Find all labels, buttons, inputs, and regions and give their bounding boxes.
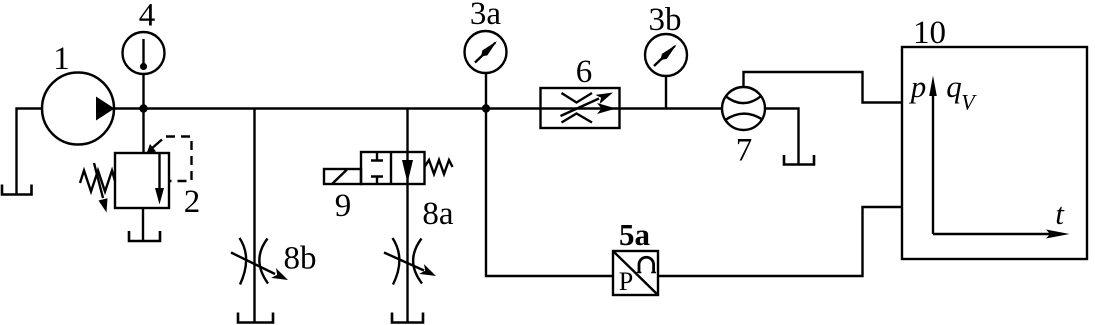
- svg-text:5a: 5a: [619, 217, 651, 252]
- wire: relief valve 2 outlet: [142, 208, 144, 241]
- wire: gauge 3a stem: [485, 73, 487, 109]
- pressure gauge 3a: [465, 31, 507, 73]
- recorder 10 box: [902, 47, 1087, 259]
- throttle 8a right arc: [413, 239, 422, 284]
- tank T4 (throttle 8a): [392, 313, 423, 323]
- valve 9 flow arrow: [402, 160, 413, 183]
- wire: flow meter branch to tank: [765, 109, 799, 165]
- valve 6 adjustment arrow: [561, 99, 600, 117]
- pump 1 output triangle: [96, 97, 115, 121]
- svg-text:V: V: [961, 90, 977, 115]
- relief valve 2 body: [115, 153, 169, 208]
- svg-text:1: 1: [53, 41, 70, 77]
- wire: relief valve 2 inlet: [142, 109, 144, 154]
- relief valve 2 spring adjustment arrow: [94, 163, 103, 198]
- svg-text:2: 2: [184, 184, 201, 220]
- valve 9 solenoid: [324, 169, 361, 184]
- tank T3 (throttle 8b): [238, 313, 273, 323]
- svg-text:8a: 8a: [422, 196, 454, 232]
- flow meter 7: [722, 87, 765, 130]
- tank T2 (relief valve): [129, 231, 160, 241]
- flow control valve 6 body: [541, 88, 620, 128]
- valve 9 body: [361, 152, 425, 184]
- wire: branch line through valve 9 to throttle 8a: [406, 109, 408, 323]
- recorder vertical axis: [932, 92, 934, 234]
- relief valve 2 internal flow arrow: [158, 153, 160, 190]
- wire: flow meter outlet to recorder: [744, 72, 903, 103]
- relief valve 2 pilot line (dashed): [151, 140, 163, 150]
- throttle 8b right arc: [259, 239, 268, 284]
- tank T1 (pump suction): [2, 185, 32, 195]
- throttle 8b adjustment arrow: [231, 253, 275, 275]
- wire: main pressure line: [114, 107, 723, 109]
- node: junction at gauge 3a: [482, 104, 490, 112]
- pump 1 circle: [42, 73, 114, 145]
- recorder horizontal axis: [933, 233, 1052, 235]
- svg-text:q: q: [946, 69, 962, 104]
- wire: pump suction line: [17, 109, 43, 195]
- throttle 8a left arc: [393, 238, 400, 285]
- svg-text:9: 9: [335, 188, 352, 224]
- throttle 8a adjustment arrow: [384, 253, 424, 271]
- wire: gauge 3b stem: [665, 76, 667, 109]
- wire: branch line to throttle 8b: [253, 109, 255, 323]
- wire: feedback line from junction to transducer 5a: [486, 109, 613, 277]
- throttle 8b left arc: [240, 238, 247, 285]
- valve 6 flow direction arrow: [597, 103, 616, 114]
- svg-text:4: 4: [139, 0, 156, 34]
- pressure transducer 5a: [613, 251, 658, 296]
- pressure gauge 4: [123, 32, 165, 74]
- svg-text:P: P: [619, 267, 633, 296]
- wire: transducer 5a to recorder: [658, 207, 902, 276]
- relief valve 2 spring: [80, 171, 115, 192]
- valve 6 throttle chevrons: [562, 93, 593, 123]
- svg-text:6: 6: [576, 54, 593, 90]
- wire: gauge 4 stem: [142, 74, 144, 109]
- tank T5 (flow meter): [784, 155, 814, 165]
- svg-text:10: 10: [913, 15, 946, 51]
- node: junction at gauge 4: [139, 104, 147, 112]
- svg-text:3a: 3a: [470, 0, 502, 32]
- svg-text:7: 7: [736, 133, 753, 169]
- valve 9 return spring: [425, 160, 453, 174]
- valve 9 closed-port symbols: [371, 152, 383, 184]
- svg-text:t: t: [1055, 196, 1065, 231]
- svg-text:3b: 3b: [649, 2, 682, 38]
- pressure gauge 3b: [645, 34, 687, 76]
- svg-text:8b: 8b: [284, 241, 317, 277]
- svg-text:p: p: [909, 69, 927, 104]
